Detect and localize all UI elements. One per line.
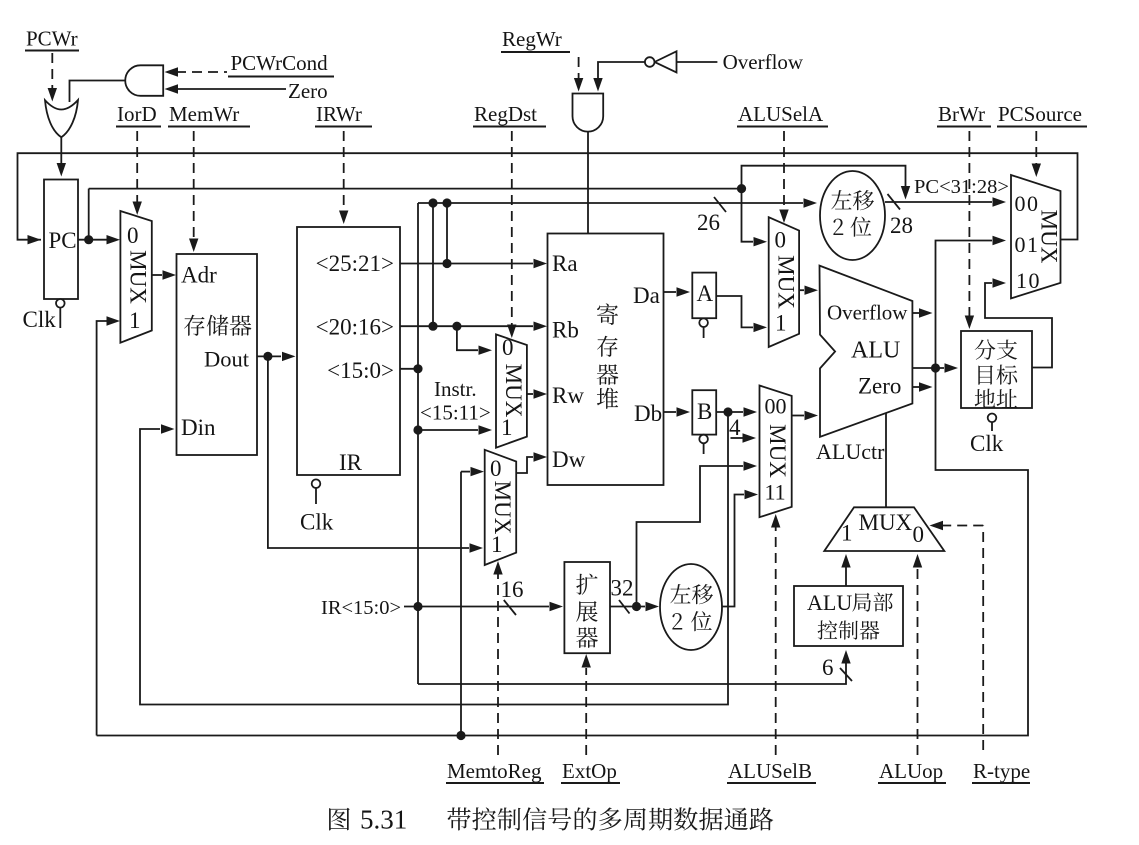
svg-text:BrWr: BrWr: [938, 102, 985, 126]
wire Overflow into NOT gate: [677, 61, 718, 63]
svg-text:Rb: Rb: [552, 318, 579, 343]
wire B register to memory Din: [140, 412, 728, 705]
svg-text:Instr.: Instr.: [434, 377, 477, 401]
svg-text:<25:21>: <25:21>: [316, 251, 394, 276]
wire IR<15:0> stub to vertical bus: [400, 364, 423, 373]
slash 26-bit width mark: [697, 197, 726, 235]
wire funct field (6 bits) to ALU local controller: [418, 650, 851, 684]
wire IR<20:16> to Rb: [400, 322, 547, 331]
svg-text:Zero: Zero: [858, 374, 901, 399]
svg-text:PCSource: PCSource: [998, 102, 1082, 126]
and-gate U1 (PCWrCond AND Zero): [125, 65, 163, 96]
svg-text:Overflow: Overflow: [827, 301, 908, 325]
net IorD label: [116, 102, 161, 127]
svg-text:MemWr: MemWr: [169, 102, 239, 126]
net Zero label: [288, 79, 328, 103]
wire 26-bit jump field to shifter: [418, 198, 817, 326]
svg-text:0: 0: [127, 223, 139, 248]
net ALUSelA label: [737, 102, 828, 127]
wire MemtoReg mux output to Dw: [516, 452, 547, 473]
register A: [692, 273, 716, 319]
svg-text:PCWr: PCWr: [26, 27, 78, 51]
net ALUop label: [878, 759, 946, 783]
register PC: [44, 180, 78, 300]
svg-text:1: 1: [501, 415, 513, 440]
wire BrWr dashed control: [965, 131, 974, 329]
wire U3 output to AND gate U4: [593, 62, 645, 92]
wire ALUSelB dashed control: [771, 514, 780, 755]
wire PC value to ALUSelA mux input 0: [742, 189, 768, 247]
svg-text:<20:16>: <20:16>: [316, 315, 394, 340]
mux IorD: [120, 211, 151, 343]
svg-text:ALUop: ALUop: [879, 759, 943, 783]
wire U4 output to register file: [587, 132, 589, 234]
svg-text:0: 0: [775, 228, 787, 253]
svg-text:ALUSelB: ALUSelB: [728, 759, 812, 783]
wire IR<25:21> to Ra: [400, 259, 547, 268]
net Clk label (IR): [300, 510, 334, 535]
svg-text:MUX: MUX: [859, 510, 913, 535]
slash 32-bit width mark: [611, 576, 634, 614]
svg-text:IR<15:0>: IR<15:0>: [321, 597, 401, 619]
wire PCWr dashed control: [48, 53, 57, 102]
svg-text:Zero: Zero: [288, 79, 328, 103]
wire Dout to MemtoReg mux input 1: [268, 356, 483, 552]
controller ALU局部控制器 (ALU local controller): [794, 586, 903, 646]
svg-text:PCWrCond: PCWrCond: [231, 51, 329, 75]
svg-text:Clk: Clk: [970, 431, 1004, 456]
register IR (instruction register): [297, 227, 400, 475]
wire ALUop dashed control: [913, 554, 922, 755]
mux PCSource: [1011, 175, 1062, 298]
wire RegDst dashed control: [507, 131, 516, 338]
wire Zero into AND gate: [165, 84, 287, 93]
net Overflow label (top): [723, 50, 804, 74]
wire R-type dashed control to ALUop mux: [930, 521, 984, 750]
wire extender output (32 bits): [610, 602, 659, 611]
svg-text:ALU: ALU: [807, 590, 852, 615]
net Instr.<15:11> label: [420, 377, 491, 425]
svg-text:ALUctr: ALUctr: [816, 439, 885, 464]
svg-text:Dw: Dw: [552, 447, 586, 472]
register-file 寄存器堆: [548, 234, 664, 486]
svg-text:MUX: MUX: [501, 364, 526, 418]
svg-text:26: 26: [697, 210, 720, 235]
svg-text:Db: Db: [634, 401, 662, 426]
wire branch target output to PCSource mux input 10: [985, 278, 1052, 367]
clock bubble of IR: [312, 479, 321, 504]
net RegDst label: [473, 102, 546, 127]
wire ExtOp dashed control: [582, 654, 591, 755]
clock bubble of branch target register: [988, 414, 997, 432]
net R-type label: [972, 759, 1030, 783]
wire IR<20:16> to RegDst mux input 0: [457, 326, 492, 355]
wire PC feedback bus (PCSource mux output to PC input): [18, 153, 1078, 244]
svg-text:10: 10: [1016, 268, 1041, 293]
svg-text:Din: Din: [181, 415, 216, 440]
wire register file Da to A: [664, 287, 691, 296]
svg-text:IR: IR: [339, 450, 363, 475]
wire B output to ALUSelB mux input 00: [716, 407, 757, 416]
svg-text:1: 1: [129, 308, 141, 333]
wire memory-address feedback into IorD mux input 1: [97, 316, 120, 735]
wire shifted offset to ALUSelB mux input 11: [722, 490, 758, 607]
svg-text:01: 01: [1015, 232, 1040, 257]
clock bubble of B: [699, 435, 708, 454]
wire ALU result to branch-target register: [912, 363, 958, 372]
slash 6-bit width mark: [822, 655, 852, 681]
svg-text:MUX: MUX: [1037, 210, 1062, 264]
slash 16-bit width mark: [501, 577, 524, 615]
clock bubble of A: [699, 318, 708, 338]
svg-text:Clk: Clk: [23, 307, 57, 332]
svg-text:00: 00: [765, 394, 787, 419]
net PC<31:28> label: [914, 176, 1009, 198]
caption 图5.31: [329, 805, 773, 835]
register 分支目标地址 (branch target address): [961, 331, 1032, 408]
clock bubble of PC: [56, 299, 65, 328]
wire ALU overflow output: [912, 308, 932, 317]
svg-text:Overflow: Overflow: [723, 50, 804, 74]
mux ALUop (ALU control select): [824, 507, 944, 551]
wire ALUSelA dashed control: [779, 131, 788, 223]
wire IR<15:0> (16 bits) to extender: [404, 602, 563, 611]
net Clk label (branch target): [970, 431, 1004, 456]
shifter 左移2位 (branch offset): [660, 564, 722, 650]
svg-text:<15:11>: <15:11>: [420, 401, 491, 425]
svg-text:1: 1: [841, 521, 853, 546]
net PCWrCond label: [228, 51, 334, 77]
svg-text:Rw: Rw: [552, 383, 584, 408]
svg-text:PC<31:28>: PC<31:28>: [914, 176, 1009, 198]
wire PC output to IorD mux and PC bus: [78, 184, 746, 244]
mux MemtoReg: [485, 450, 517, 565]
svg-text:IorD: IorD: [117, 102, 157, 126]
wire extender output to ALUSelB mux input 10: [637, 461, 758, 606]
mux ALUSelA: [769, 217, 799, 347]
svg-text:<15:0>: <15:0>: [327, 358, 394, 383]
svg-text:Dout: Dout: [204, 347, 250, 372]
svg-text:MUX: MUX: [490, 481, 515, 535]
svg-text:11: 11: [765, 480, 786, 505]
svg-text:RegWr: RegWr: [502, 27, 562, 51]
net Clk label (PC): [23, 307, 57, 332]
svg-text:RegDst: RegDst: [474, 102, 537, 126]
net ALUctr label: [816, 439, 885, 464]
mux RegDst: [496, 334, 527, 447]
wire ALUSelB mux output to ALU: [792, 411, 818, 420]
wire register file Db to B: [664, 407, 691, 416]
svg-text:0: 0: [490, 456, 502, 481]
net PCSource label: [997, 102, 1087, 127]
svg-text:MemtoReg: MemtoReg: [447, 759, 542, 783]
net MemtoReg label: [446, 759, 544, 783]
extender 扩展器: [564, 562, 610, 653]
constant 4 input to ALUSelB mux: [729, 415, 756, 443]
wire memory Dout to IR: [257, 352, 296, 361]
svg-text:MUX: MUX: [765, 424, 790, 478]
net IR<15:0> label: [321, 597, 401, 619]
svg-text:ALU: ALU: [851, 338, 900, 364]
net IRWr label: [315, 102, 372, 127]
svg-text:1: 1: [491, 532, 503, 557]
wire MemWr dashed control: [189, 131, 198, 252]
wire ALU result feedback to IorD mux / MemtoReg mux: [97, 368, 1028, 740]
svg-text:R-type: R-type: [973, 759, 1030, 783]
wire ALU result to PCSource mux input 01: [936, 236, 1007, 368]
wire ALU result to MemtoReg mux input 0: [461, 467, 484, 736]
wire A output to ALUSelA mux input 1: [716, 296, 767, 332]
svg-text:5.31: 5.31: [360, 805, 407, 835]
net ExtOp label: [561, 759, 620, 783]
net ALUSelB label: [727, 759, 816, 783]
register B: [692, 390, 716, 434]
svg-text:Clk: Clk: [300, 510, 334, 535]
svg-text:16: 16: [501, 577, 524, 602]
wire RegDst mux output to Rw: [527, 389, 547, 398]
wire Instr<15:11> to RegDst mux input 1: [418, 425, 492, 434]
svg-text:ALUSelA: ALUSelA: [738, 102, 824, 126]
memory block 存储器: [177, 254, 258, 455]
net MemWr label: [168, 102, 250, 127]
svg-text:32: 32: [611, 576, 634, 601]
svg-text:A: A: [697, 281, 714, 306]
wire IorD mux output to memory Adr: [152, 270, 176, 279]
wire U1 output to OR gate: [70, 81, 126, 103]
svg-text:PC: PC: [49, 228, 77, 253]
svg-text:Da: Da: [633, 283, 660, 308]
svg-text:Ra: Ra: [552, 251, 578, 276]
svg-text:0: 0: [913, 522, 925, 547]
wire PC<31:28> to jump address: [742, 166, 911, 200]
wire ALUSelA mux output to ALU: [799, 286, 818, 295]
svg-text:ExtOp: ExtOp: [562, 759, 617, 783]
svg-text:4: 4: [729, 415, 741, 440]
net BrWr label: [937, 102, 991, 127]
slash 28-bit width mark: [888, 194, 914, 238]
net RegWr label: [501, 27, 570, 52]
net PCWr label: [25, 27, 79, 51]
svg-text:B: B: [697, 399, 712, 424]
svg-text:00: 00: [1015, 191, 1040, 216]
svg-text:6: 6: [822, 655, 834, 680]
svg-text:MUX: MUX: [126, 250, 151, 304]
wire PCWrCond dashed into AND gate: [165, 67, 228, 76]
wire shifter output (28 bits) to PCSource mux input 00: [885, 197, 1006, 206]
wire vertical instruction bus IR<25:0>: [413, 203, 422, 684]
mux ALUSelB: [760, 386, 792, 518]
svg-text:1: 1: [775, 311, 787, 336]
shifter 左移2位 (jump address): [820, 171, 885, 260]
wire IorD dashed control: [133, 131, 142, 215]
wire ALUctr from ALUop mux to ALU: [885, 413, 887, 507]
svg-text:MUX: MUX: [774, 255, 799, 309]
svg-text:0: 0: [502, 335, 514, 360]
not-gate U3 (Overflow inverter): [645, 51, 677, 72]
svg-text:Adr: Adr: [181, 263, 217, 288]
wire ALU zero output: [912, 382, 932, 391]
wire ALU local controller output to ALUop mux input 1: [841, 554, 850, 586]
wire PCSource dashed control: [1032, 131, 1041, 177]
alu ALU: [820, 266, 913, 437]
svg-text:IRWr: IRWr: [316, 102, 362, 126]
and-gate U4 (RegWr AND not-Overflow): [573, 94, 604, 132]
wire U2 output to PC: [57, 137, 66, 177]
or-gate U2 (PCWr OR U1): [45, 100, 78, 137]
wire RegWr dashed control: [574, 57, 583, 92]
svg-text:28: 28: [890, 213, 913, 238]
wire MemtoReg dashed control: [493, 561, 502, 755]
wire IRWr dashed control: [339, 131, 348, 224]
